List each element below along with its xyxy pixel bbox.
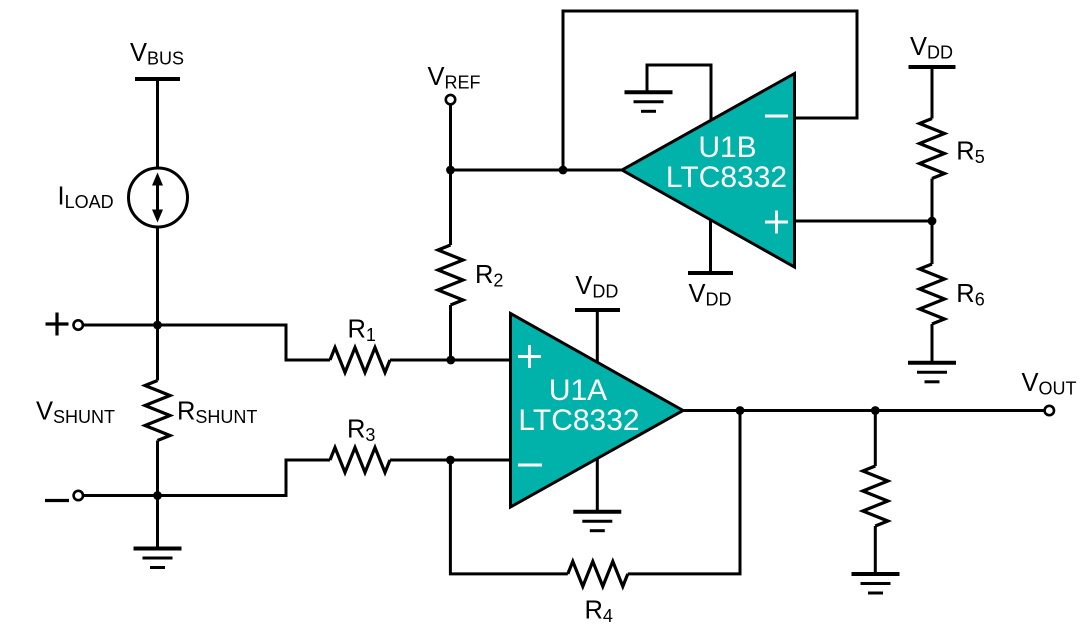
- svg-text:LTC8332: LTC8332: [666, 161, 787, 194]
- svg-text:U1B: U1B: [698, 131, 756, 164]
- svg-text:LTC8332: LTC8332: [518, 404, 639, 437]
- svg-text:U1A: U1A: [549, 374, 607, 407]
